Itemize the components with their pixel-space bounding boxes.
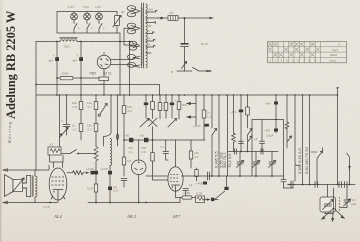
terminal hook x337 (337, 87, 339, 95)
wire left end verticals (56, 12, 58, 34)
potentiometer arrow (60, 128, 69, 138)
svg-text:+0,05: +0,05 (100, 167, 108, 171)
electrolytic 0,05 b (109, 168, 111, 203)
band switch right (317, 148, 323, 185)
lamp L1 (68, 5, 77, 24)
resistor 6ohm under rectifier (103, 69, 105, 77)
output tube AL4 (49, 155, 67, 200)
wire right vertical x337 (337, 95, 339, 185)
svg-text:20: 20 (121, 10, 125, 14)
resistor 15k row2 (94, 124, 98, 132)
bottom rail mid (88, 198, 180, 203)
svg-text:0,50 160 75 20: 0,50 160 75 20 (304, 147, 309, 174)
switch line to grid (61, 150, 96, 154)
wirewound resistor column (94, 140, 98, 168)
line y176 (146, 175, 284, 177)
trimmer bottom right (344, 196, 357, 207)
svg-text:+: + (175, 98, 177, 102)
electrolytic µF 0,5 (108, 187, 112, 191)
transformer secondary winding (146, 4, 148, 68)
svg-text:AB 2: AB 2 (126, 214, 137, 219)
series caps on y184 (339, 182, 347, 188)
svg-text:+50: +50 (139, 134, 144, 138)
wire fuse to node (178, 17, 185, 19)
cap left on y184 (288, 165, 295, 188)
power transformer core (142, 3, 144, 68)
heater distribution line (36, 85, 160, 96)
electrolytic x207 (205, 124, 209, 127)
svg-text:+MS: +MS (264, 129, 270, 133)
svg-text:Lang: Lang (329, 58, 336, 62)
resistor x152 grid feed (151, 153, 154, 162)
svg-text:µµF: µµF (287, 182, 292, 186)
trimmer cap 1 (237, 152, 244, 177)
svg-text:Mittel: Mittel (330, 53, 338, 57)
wire y41 feed (36, 41, 57, 43)
lamp L2 (83, 5, 90, 24)
svg-text:1,1: 1,1 (129, 150, 134, 154)
wire drop x241 (240, 95, 242, 152)
electrolytic 50uF a on rail (129, 138, 133, 142)
svg-text:AF7: AF7 (172, 214, 182, 219)
wire arrow stub right (185, 17, 214, 19)
svg-text:6 Ω: 6 Ω (100, 82, 106, 86)
electro on diag (226, 176, 228, 187)
primary tap fork 1 (131, 8, 140, 14)
grid RC box above AL4 (48, 147, 61, 155)
switch arrows left pair (187, 95, 196, 125)
wire AF7 bottom (175, 191, 177, 198)
ground rake (322, 208, 345, 222)
rectifier tube AZ11 (97, 55, 111, 69)
resistor x191 (189, 151, 192, 159)
svg-text:4µF: 4µF (48, 59, 53, 63)
electrolytic x172 (171, 95, 173, 103)
svg-text:B: B (171, 70, 173, 74)
svg-text:Adelung RB 2205 W: Adelung RB 2205 W (4, 10, 18, 119)
svg-text:6,3V: 6,3V (83, 5, 89, 9)
switch s2 (87, 24, 90, 34)
svg-text:+50: +50 (124, 134, 129, 138)
pentode tube AF7 (168, 140, 183, 191)
mech gang dashed link (339, 197, 341, 212)
switch s3 (99, 24, 102, 34)
RC box bottom (196, 196, 205, 203)
mid line y151 (228, 151, 279, 153)
resistor x166 (165, 95, 167, 103)
wire drop x219 with value labels (214, 95, 224, 176)
cap on y176 (208, 172, 210, 180)
speaker field coil box (13, 180, 23, 192)
svg-text:0,3: 0,3 (49, 143, 54, 147)
duodiode tube AB2 (131, 140, 146, 175)
svg-text:+MS: +MS (230, 110, 236, 114)
svg-text:6,3V: 6,3V (68, 5, 74, 9)
choke coil column x110 (110, 139, 112, 169)
secondary tap 4V a (146, 32, 154, 34)
wire drop x111 (104, 95, 112, 146)
resistor 4M bottom chain (176, 197, 183, 199)
electrolytic 0,05 a (95, 168, 97, 203)
main HT bus (36, 94, 338, 96)
variable cap gang box (320, 185, 336, 213)
cap on x241 (239, 141, 244, 143)
svg-text:4 MΩ: 4 MΩ (183, 191, 191, 195)
wire filter left drop (56, 41, 58, 43)
output transformer (23, 170, 38, 203)
wire AL4 cathode to rail (57, 196, 59, 203)
svg-text:4V: 4V (147, 43, 151, 47)
capacitor C block left (63, 95, 70, 135)
electrolytic cap 4µF b (79, 57, 83, 61)
svg-text:x 0,5: x 0,5 (43, 205, 50, 209)
bus junction dots (56, 94, 338, 96)
wire drop x309 with value labels (304, 95, 309, 185)
resistor 1k row2 (79, 124, 83, 132)
small zigzag x233 (232, 95, 236, 152)
svg-text:+: + (77, 53, 79, 57)
cap cluster frame bottom (281, 176, 293, 188)
secondary tap 30 (146, 22, 156, 24)
electrolytic 50uF b on rail (144, 138, 148, 142)
primary tap fork 2 (131, 26, 140, 32)
svg-text:µF: µF (254, 137, 258, 141)
svg-text:2500: 2500 (62, 72, 69, 76)
svg-text:30Ω: 30Ω (64, 45, 70, 49)
svg-text:70,2 0,5: 70,2 0,5 (227, 153, 232, 168)
line y184 (288, 184, 355, 186)
svg-text:0,5µF: 0,5µF (266, 134, 274, 138)
resistor small x196 (195, 170, 198, 177)
svg-text:1,1: 1,1 (73, 128, 78, 132)
svg-text:+Ms: +Ms (265, 102, 271, 106)
resistor 2500 bleeder (57, 77, 60, 79)
series cap a on y151 (235, 149, 237, 154)
resistor 20k (80, 95, 82, 102)
wire AB2 cathode down (138, 175, 140, 203)
electro +MS lower (275, 120, 277, 134)
wire lamp rail lower (57, 32, 120, 34)
svg-text:2,0: 2,0 (73, 105, 78, 109)
svg-text:µF: µF (189, 183, 193, 187)
cap on x262 upper (260, 141, 265, 143)
speaker cone (5, 175, 14, 197)
svg-text:+: + (53, 53, 55, 57)
svg-text:30: 30 (148, 24, 152, 28)
wire hv line with switch (177, 68, 207, 72)
cap 0,1 above AF7 (163, 140, 169, 160)
wire rectifier to bus (103, 81, 105, 95)
secondary tap fused (146, 17, 158, 19)
svg-text:7062: 7062 (89, 72, 96, 76)
cap 0,1 under AF7 (183, 189, 189, 197)
svg-text:0,5: 0,5 (127, 159, 132, 163)
antenna arrow (347, 153, 350, 170)
coil tick stub (311, 151, 317, 153)
svg-text:+P06: +P06 (196, 182, 203, 186)
svg-text:4V: 4V (147, 29, 151, 33)
wire filter right drop (80, 41, 82, 43)
wire drop x117 (117, 95, 119, 146)
wire left column (35, 42, 37, 171)
wire top rail (57, 11, 117, 13)
anode cap 8µF (184, 18, 186, 43)
frame sub top (252, 119, 284, 121)
svg-text:0,336 0,15 2,0: 0,336 0,15 2,0 (297, 148, 302, 174)
wire rheostat drop (119, 33, 121, 42)
rheostat R-dial (113, 10, 125, 33)
svg-text:U: U (338, 43, 340, 47)
cap x124 lower (121, 179, 127, 188)
switch s1 (74, 24, 77, 34)
svg-text:4µF: 4µF (72, 59, 77, 63)
zigzag resistor right of AL4 (67, 171, 84, 175)
switch x247 (247, 95, 249, 107)
resistor x152 (152, 95, 154, 102)
wire x262 (261, 120, 263, 142)
frame sub right (283, 120, 285, 177)
wire drop x302 with value labels (297, 95, 302, 185)
electro +Ms upper (275, 95, 277, 120)
wire lamp circuit drop x120 (119, 42, 121, 96)
wire drop x295 (295, 95, 299, 166)
svg-text:123456789: 123456789 (269, 58, 320, 62)
series cap b on y151 (261, 149, 263, 154)
svg-text:2,0: 2,0 (142, 150, 147, 154)
svg-text:0,7: 0,7 (88, 128, 93, 132)
svg-text:µµF: µµF (351, 202, 356, 206)
electrolytic cap 4µF a (55, 57, 59, 61)
svg-text:+0,05: +0,05 (86, 167, 94, 171)
svg-text:4,9: 4,9 (194, 155, 199, 159)
trimmer cap 2 (253, 152, 260, 177)
electro +P06 (203, 182, 207, 185)
svg-text:0,25: 0,25 (87, 187, 93, 191)
lamp L3 (95, 5, 102, 24)
wire drop x212 (212, 95, 217, 176)
resistor x179 (178, 95, 180, 102)
svg-text:+0,05: +0,05 (193, 124, 201, 128)
svg-text:AL4: AL4 (53, 214, 62, 219)
switch diag left frame (248, 136, 252, 142)
secondary tap low (146, 52, 151, 54)
secondary tap 4V b (146, 39, 155, 41)
pot crossing mid2 (149, 118, 158, 127)
wire drop x59 (59, 95, 61, 147)
svg-text:0,1: 0,1 (160, 145, 165, 149)
svg-text:240: 240 (148, 8, 153, 12)
heater fork loops (128, 55, 136, 60)
resistor x160 (159, 95, 161, 103)
wire drop x287 (286, 95, 288, 148)
electrolytic small x146 (145, 95, 147, 103)
svg-text:1,1: 1,1 (207, 115, 212, 119)
filter choke (57, 37, 81, 48)
speaker terminal bottom (3, 202, 57, 204)
mid rail y140 (124, 139, 205, 141)
svg-text:Körting: Körting (7, 121, 12, 144)
svg-text:0,5: 0,5 (114, 189, 119, 193)
resistor 10k x124 (123, 95, 125, 106)
svg-text:0,1B: 0,1B (196, 192, 202, 196)
resistor x204 (203, 95, 205, 110)
resistor 12k (95, 95, 97, 102)
primary tap fork 3 (133, 44, 140, 48)
zigzag x287 (285, 122, 289, 129)
resistor 0,25 (94, 184, 97, 192)
wire var cap to ground (325, 188, 347, 214)
pot arrow mid3 (168, 119, 177, 128)
secondary tap 4V c (146, 45, 155, 47)
speaker terminal top (3, 169, 36, 171)
cap pair x315 (313, 182, 319, 188)
wire drop x227 with value labels (222, 95, 232, 176)
transformer primary winding (141, 8, 143, 65)
frame sub left (251, 120, 253, 177)
svg-text:0,8: 0,8 (169, 11, 174, 15)
svg-text:Kurz: Kurz (332, 48, 339, 52)
pot arrow mid1 (140, 119, 149, 128)
wiper arrow x104 (100, 104, 107, 115)
switch diag right frame (288, 136, 292, 142)
trimmer cap 3 (269, 152, 276, 177)
fuse Si 0,8 (168, 16, 178, 21)
wire transformer top to AL4 (36, 165, 49, 170)
svg-text:4V: 4V (147, 37, 151, 41)
band table (268, 42, 347, 63)
wire heater taps to rectifier (111, 57, 140, 60)
svg-text:6,3V: 6,3V (95, 5, 101, 9)
resistor x124 lower (122, 157, 125, 165)
svg-text:0,7: 0,7 (88, 105, 93, 109)
svg-text:6,3: 6,3 (128, 109, 133, 113)
secondary tap 240V (146, 10, 157, 12)
wire mains feeds (124, 28, 133, 45)
svg-text:8+12: 8+12 (201, 42, 208, 46)
wire drop x129 (129, 42, 131, 96)
